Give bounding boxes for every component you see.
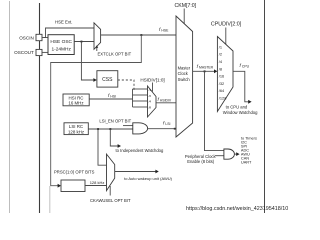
svg-text:Clock: Clock [178, 71, 189, 76]
wire LSI to IWDG [110, 129, 118, 146]
arrow to CPU [248, 100, 251, 104]
HSI RC box [63, 94, 89, 106]
svg-text:1-24MHz: 1-24MHz [51, 47, 71, 53]
svg-text:/1: /1 [149, 88, 152, 92]
svg-text:16 MHz: 16 MHz [68, 101, 83, 106]
svg-text:UART: UART [241, 160, 252, 165]
wire fCPU [233, 71, 249, 102]
svg-text:CSS: CSS [102, 77, 113, 83]
wire fHSE to PRSC [51, 35, 142, 186]
wire gate output [234, 153, 236, 155]
mux HSE/EXTCLK [94, 23, 101, 50]
OSCOUT pin [36, 49, 42, 55]
chip right border [264, 0, 266, 213]
wire OSCOUT to HSE OSC [42, 51, 48, 53]
CKM select line [183, 9, 185, 24]
node peripheral branch [204, 70, 206, 72]
svg-text:CPU: CPU [242, 65, 250, 69]
and-gate peripheral clock [224, 149, 235, 159]
frame line left [9, 1, 11, 213]
wire to CSS [81, 42, 94, 81]
mux HSIDIV [148, 86, 157, 117]
svg-text:HSE OSC: HSE OSC [50, 39, 72, 45]
svg-text:HSE: HSE [161, 29, 169, 33]
svg-text:HSIDIV[1:0]: HSIDIV[1:0] [140, 77, 164, 82]
svg-text:/1: /1 [219, 44, 222, 49]
gray stub below PRSC wire [49, 186, 51, 213]
wire AWU output [115, 171, 156, 173]
wire PRSC output [85, 185, 107, 187]
wire LSI to AWU mux [98, 129, 107, 165]
svg-text:CKM[7:0]: CKM[7:0] [175, 3, 197, 9]
arrow to AWU [155, 170, 158, 174]
svg-text:/2: /2 [219, 52, 222, 57]
svg-text:CPUDIV[2:0]: CPUDIV[2:0] [211, 22, 242, 28]
svg-text:to Independent Watchdog: to Independent Watchdog [116, 148, 164, 153]
svg-text:LSI_EN OPT BIT: LSI_EN OPT BIT [99, 118, 131, 123]
wire fLSI [147, 128, 176, 130]
chip left border [39, 3, 41, 213]
wire LSI output [88, 128, 133, 130]
PRSC divider box [61, 180, 85, 192]
arrow to IWDG [118, 144, 121, 148]
svg-text:/4: /4 [149, 100, 152, 104]
wire fHSIDIV [156, 102, 176, 104]
CPUDIV select line [225, 28, 227, 45]
svg-text:https://blog.csdn.net/weixin_4: https://blog.csdn.net/weixin_423195418/1… [186, 206, 288, 212]
CSS box [97, 71, 118, 87]
wire fHSE [101, 34, 176, 36]
svg-text:HSI: HSI [110, 95, 116, 99]
and-gate LSI enable [133, 123, 148, 134]
node LSI/IWDG junction [109, 128, 111, 130]
wire fMASTER [193, 70, 215, 72]
divider taps [133, 88, 148, 90]
wire to peripheral gate [205, 71, 224, 150]
svg-text:128 kHz: 128 kHz [68, 129, 84, 134]
svg-text:to Auto wakeup unit (AWU): to Auto wakeup unit (AWU) [124, 176, 173, 181]
node LSI/AWU junction [97, 128, 99, 130]
arrow into CSS [93, 78, 96, 82]
svg-text:/128: /128 [219, 96, 227, 101]
LSI RC box [64, 123, 88, 135]
dashed CSS output [118, 80, 134, 90]
svg-text:HSIDIV: HSIDIV [160, 99, 172, 103]
arrow into CPU divider [214, 69, 217, 73]
node HSE osc/CSS junction [81, 41, 83, 43]
svg-text:128 kHz: 128 kHz [90, 180, 105, 185]
svg-text:CKAWUSEL OPT BIT: CKAWUSEL OPT BIT [90, 198, 131, 203]
EXTCLK select stub [96, 47, 98, 51]
svg-text:Master: Master [178, 66, 191, 71]
arrow into PRSC [58, 184, 61, 188]
wire HSE OSC output [74, 41, 94, 43]
node fLSI at switch [174, 128, 176, 130]
svg-text:Window Watchdog: Window Watchdog [223, 110, 258, 115]
arrow to peripherals [236, 152, 239, 156]
svg-text:Enable (8 bits): Enable (8 bits) [187, 159, 215, 164]
OSCIN pin [36, 34, 42, 40]
svg-text:Switch: Switch [178, 77, 191, 82]
wire OSCIN to HSE OSC [42, 37, 48, 39]
svg-text:/32: /32 [219, 81, 224, 86]
svg-text:/2: /2 [149, 94, 152, 98]
svg-text:/8: /8 [219, 66, 222, 71]
wire LSI_EN into gate [123, 125, 133, 127]
svg-text:/8: /8 [149, 105, 152, 109]
svg-text:OSCOUT: OSCOUT [14, 50, 34, 55]
HSI divider bus [132, 89, 134, 107]
wire HSE ext bypass [44, 28, 95, 38]
CPU divider [217, 37, 233, 112]
master clock switch [176, 16, 193, 137]
svg-text:MASTER: MASTER [199, 66, 214, 70]
svg-text:HSE Ext.: HSE Ext. [55, 20, 72, 25]
svg-text:EXTCLK OPT BIT: EXTCLK OPT BIT [98, 52, 132, 57]
mux CKAWUSEL [107, 154, 115, 191]
svg-text:LSI: LSI [165, 122, 170, 126]
CKAWUSEL select stub [109, 186, 111, 196]
wire fHSI [89, 98, 132, 100]
svg-text:OSCIN: OSCIN [19, 35, 34, 40]
wire enable into gate [215, 155, 224, 157]
HSIDIV select stub [152, 83, 154, 92]
HSE OSC box [48, 35, 74, 55]
svg-text:/64: /64 [219, 88, 225, 93]
node fHSE junction [140, 34, 142, 36]
svg-text:PRSC(1:0) OPT BITS: PRSC(1:0) OPT BITS [54, 170, 95, 175]
svg-text:/16: /16 [219, 74, 224, 79]
